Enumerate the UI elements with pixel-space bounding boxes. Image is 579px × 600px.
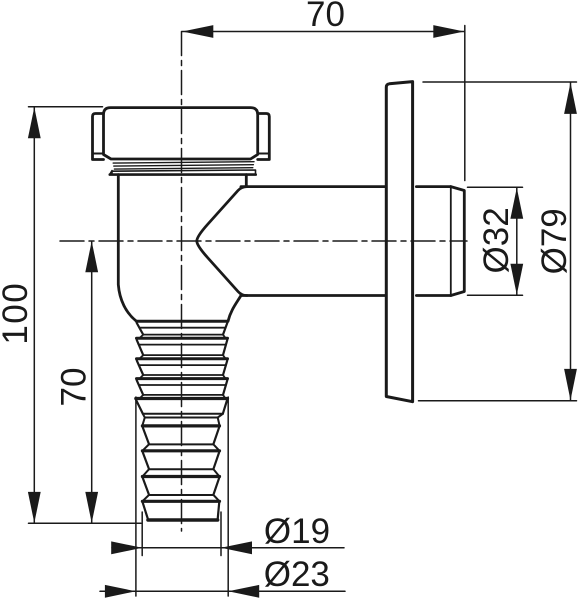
svg-text:100: 100 — [0, 282, 35, 345]
barb rib 2 sides — [137, 340, 228, 355]
barb band line 5-6 — [142, 414, 223, 426]
collar lip — [112, 170, 256, 175]
barb rib 3 top — [137, 357, 228, 360]
barb rib 6 sides — [143, 427, 220, 444]
barb rib 7 sides — [143, 452, 220, 469]
dimension D32: bottom arrow — [510, 264, 523, 295]
svg-text:Ø79: Ø79 — [535, 208, 574, 274]
thread line 3 — [114, 168, 252, 169]
barb rib 4 waist — [140, 395, 226, 399]
barb rib 2 inset line — [139, 344, 226, 346]
dimension 100/70: extension line bottom — [29, 522, 142, 524]
barb rib 1 waist — [140, 335, 226, 339]
barb rib 3 waist — [140, 375, 226, 379]
barb rib 5 waist — [143, 413, 223, 415]
dimension D23: line — [100, 590, 345, 592]
outlet pipe bottom edge (right of flange) — [416, 294, 450, 297]
barb rib 1 top — [137, 320, 228, 323]
barb rib 2 top — [137, 337, 228, 340]
barb rib 5 top — [136, 397, 228, 400]
centerline vertical (pipe axis) — [181, 32, 183, 532]
barb rib 7 waist — [143, 469, 219, 476]
dimension 70 top: extension line right — [464, 26, 466, 181]
dimension D79: top arrow — [564, 83, 577, 114]
thread line 1 — [113, 162, 254, 163]
nut right ear — [258, 114, 270, 160]
outlet pipe top edge (right of flange) — [416, 185, 450, 188]
barb rib 3 inset line — [139, 364, 226, 366]
collar lip left chamfer — [110, 171, 112, 175]
dimension 70 left: line — [91, 241, 93, 523]
dimension 70 top: right arrow — [433, 25, 464, 38]
pipe left wall with flare to hose barb — [118, 175, 136, 322]
barb rib 4 top — [137, 377, 228, 380]
dimension 100: bottom arrow — [28, 492, 41, 523]
dimension D32: extension line bottom — [468, 294, 523, 296]
dimension D19: extension line left — [141, 512, 143, 556]
nut body — [104, 108, 258, 159]
dimension 100: line — [33, 108, 35, 523]
barb rib 8 waist — [143, 495, 219, 501]
nut left ear step — [93, 153, 104, 155]
svg-text:Ø23: Ø23 — [264, 555, 330, 594]
wall flange — [386, 82, 412, 402]
dimension D32: extension line top — [468, 186, 523, 188]
dimension D32: line — [516, 188, 518, 295]
collar lip bottom edge — [110, 173, 256, 176]
barb rib 2 waist — [140, 355, 226, 359]
barb rib 6 waist — [143, 444, 219, 450]
dimension D32: top arrow — [510, 188, 523, 219]
dimension 70 left: top arrow — [85, 241, 98, 272]
dimension 70 top: left arrow — [182, 25, 213, 38]
svg-text:Ø32: Ø32 — [477, 207, 516, 273]
centerline horizontal (outlet axis) — [60, 240, 467, 242]
dimension D23: extension line right — [227, 397, 229, 596]
svg-text:70: 70 — [306, 0, 345, 34]
dimension D23: left arrow — [105, 585, 136, 598]
nut right ear step — [258, 153, 270, 155]
dimension D19: extension line right — [220, 512, 222, 556]
nut left ear — [93, 114, 104, 160]
outlet pipe bottom edge (left of flange) — [241, 294, 385, 297]
dimension 70 top: line — [182, 31, 464, 33]
svg-text:Ø19: Ø19 — [264, 512, 330, 551]
outlet pipe top edge (left of flange) — [241, 185, 385, 188]
dimension D19: left arrow — [111, 541, 142, 554]
pipe right wall — [245, 175, 248, 187]
barb rib 1 sides — [137, 323, 228, 335]
barb rib 1 inset line — [139, 327, 225, 329]
dimension 100: top arrow — [28, 107, 41, 138]
dimension D19: right arrow — [221, 541, 252, 554]
dimension 100: extension line top — [29, 106, 103, 108]
dimension D79: line — [570, 83, 572, 401]
dimension D79: extension line bottom — [419, 400, 577, 402]
barb rib 4 inset line — [139, 384, 226, 386]
dimension D23: extension line left — [135, 397, 137, 596]
outlet pipe end face — [451, 187, 465, 296]
barb rib 5 sides — [136, 400, 227, 414]
svg-text:70: 70 — [54, 368, 93, 407]
dimension D23: right arrow — [228, 585, 259, 598]
dimension D79: extension line top — [423, 81, 577, 83]
dimension 70 left: bottom arrow — [85, 492, 98, 523]
dimension D19: line — [112, 547, 344, 549]
barb rib 3 sides — [137, 360, 228, 375]
barb rib 9 top — [142, 500, 219, 503]
barb rib 9 sides — [143, 503, 220, 519]
barb rib 7 top — [142, 449, 219, 452]
elbow body chamfered end — [197, 187, 247, 296]
dimension D79: bottom arrow — [564, 369, 577, 400]
barb outlet bottom edge — [148, 518, 218, 521]
barb rib 8 sides — [143, 478, 220, 495]
thread line 2 — [114, 165, 254, 166]
outlet pipe end chamfer edge — [450, 188, 452, 295]
barb rib 8 top — [142, 475, 219, 478]
elbow lower curve to barb — [228, 296, 241, 322]
barb rib 4 sides — [137, 380, 228, 395]
barb rib 6 top — [142, 424, 219, 427]
